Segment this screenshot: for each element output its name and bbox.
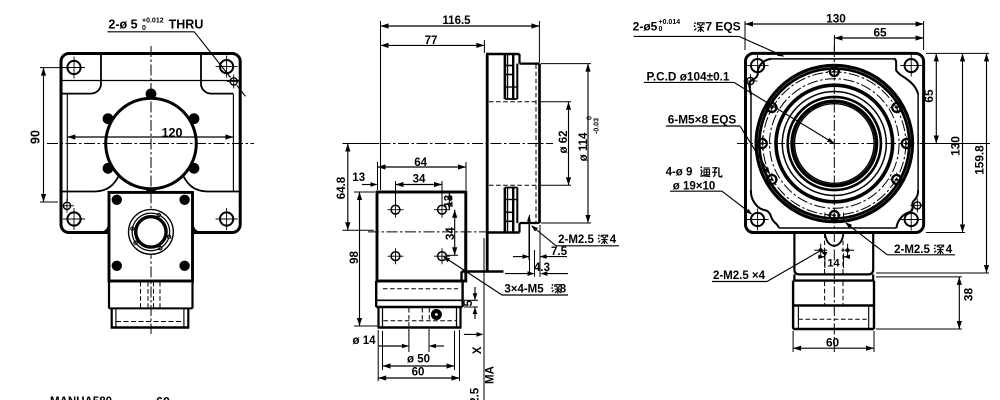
svg-text:34: 34	[413, 174, 426, 186]
svg-text:64.8: 64.8	[336, 176, 348, 199]
svg-text:0: 0	[587, 116, 594, 120]
svg-text:65: 65	[922, 89, 936, 103]
svg-text:THRU: THRU	[169, 17, 204, 31]
svg-text:ø 50: ø 50	[407, 354, 430, 366]
svg-text:14: 14	[827, 258, 840, 270]
svg-text:116.5: 116.5	[442, 15, 471, 27]
svg-text:2-M2.5: 2-M2.5	[894, 244, 930, 256]
svg-text:ø 14: ø 14	[352, 335, 376, 347]
svg-text:60: 60	[156, 395, 170, 400]
svg-text:P.C.D ø104±0.1: P.C.D ø104±0.1	[647, 70, 730, 84]
svg-text:65: 65	[873, 25, 887, 39]
svg-text:159.8: 159.8	[972, 145, 986, 175]
svg-text:2-M2.5 ×4: 2-M2.5 ×4	[713, 270, 766, 282]
svg-text:+0.014: +0.014	[659, 19, 681, 26]
svg-text:98: 98	[349, 251, 361, 264]
svg-text:64: 64	[414, 157, 427, 169]
svg-text:32.5: 32.5	[469, 387, 481, 400]
svg-text:77: 77	[425, 35, 438, 47]
svg-text:4: 4	[946, 244, 953, 256]
svg-text:ø 114: ø 114	[578, 132, 590, 161]
svg-text:34: 34	[445, 227, 457, 240]
svg-text:X: X	[472, 346, 484, 354]
svg-text:60: 60	[826, 335, 840, 349]
svg-text:6-M5×8 EQS: 6-M5×8 EQS	[668, 113, 737, 127]
svg-text:13: 13	[352, 172, 365, 184]
svg-text:90: 90	[29, 130, 43, 144]
svg-text:MANUA580: MANUA580	[50, 396, 112, 400]
svg-text:8: 8	[560, 284, 567, 296]
svg-text:5: 5	[463, 300, 475, 307]
svg-text:-0.03: -0.03	[594, 118, 601, 134]
svg-text:2-ø 5: 2-ø 5	[108, 17, 137, 31]
svg-text:0: 0	[659, 26, 663, 33]
svg-text:ø 62: ø 62	[558, 130, 570, 153]
svg-text:4: 4	[610, 234, 617, 246]
svg-text:7 EQS: 7 EQS	[705, 19, 740, 33]
svg-text:0: 0	[142, 25, 146, 32]
svg-text:+0.012: +0.012	[142, 17, 164, 24]
svg-text:120: 120	[162, 126, 183, 140]
svg-text:13: 13	[444, 195, 456, 208]
svg-text:60: 60	[412, 367, 425, 379]
svg-text:4.3: 4.3	[534, 262, 550, 274]
svg-text:3×4-M5: 3×4-M5	[504, 284, 544, 296]
svg-text:130: 130	[826, 11, 846, 25]
svg-text:MA: MA	[485, 366, 497, 384]
svg-text:4-ø 9: 4-ø 9	[666, 167, 693, 179]
svg-text:38: 38	[961, 288, 975, 302]
svg-text:2-ø5: 2-ø5	[633, 19, 658, 33]
svg-text:2-M2.5: 2-M2.5	[558, 234, 594, 246]
svg-text:130: 130	[948, 136, 962, 156]
